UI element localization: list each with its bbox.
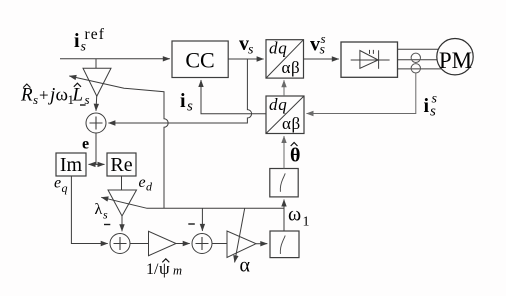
block CC current controller <box>172 41 228 78</box>
svg-text:i: i <box>74 30 80 52</box>
gain block (R_s + j w1 L_s) triangle <box>83 68 111 96</box>
svg-text:s: s <box>187 99 193 115</box>
summing node 1 <box>110 234 130 254</box>
svg-text:θ: θ <box>290 145 300 167</box>
svg-text:+: + <box>39 86 49 105</box>
svg-text:Im: Im <box>60 154 83 176</box>
minus sign above summing node 2 <box>188 223 195 225</box>
svg-text:R: R <box>20 85 33 106</box>
svg-text:e: e <box>82 136 89 153</box>
label i_s^ref <box>74 26 105 55</box>
summing node e (v_s - Z i_s) <box>86 113 106 133</box>
wire e_q from Im to summing node 1 <box>71 176 107 244</box>
svg-text:1/: 1/ <box>146 261 159 278</box>
svg-text:s: s <box>248 43 254 58</box>
block Re <box>107 153 136 176</box>
svg-text:d: d <box>146 180 153 194</box>
wire summing node 1 to 1/psi gain <box>130 243 148 245</box>
current sensor circles <box>411 53 420 62</box>
arrow omega1 down into summing node 2 <box>201 208 203 231</box>
wire theta between transform blocks <box>283 80 285 96</box>
arrow alpha to integrator 2 <box>256 243 267 245</box>
PM machine circle <box>437 39 473 75</box>
svg-text:ω: ω <box>56 85 69 106</box>
svg-text:ref: ref <box>85 26 106 43</box>
gain block lambda_s triangle <box>108 190 137 216</box>
wire e down to Im/Re tee <box>95 133 97 164</box>
wire transform block 1 to inverter <box>304 58 339 60</box>
wire lambda output to summing node 1 <box>121 216 123 231</box>
label v_s^s <box>310 31 326 58</box>
control arrow omega1 into gain triangle (with hop over e-wire) <box>69 76 168 208</box>
svg-text:dq: dq <box>269 95 288 114</box>
label lambda_s <box>95 201 109 222</box>
gain block 1/psi_m triangle <box>149 231 177 255</box>
label i_s <box>180 90 193 115</box>
svg-text:1: 1 <box>303 215 310 230</box>
arrow 1/psi_m to summing node 2 <box>176 243 190 245</box>
summing node 2 <box>192 234 212 254</box>
block Im <box>56 153 86 176</box>
svg-text:Re: Re <box>110 154 132 176</box>
wire v_s junction down into error summing node (hop over i_s wire) <box>108 59 251 123</box>
svg-text:CC: CC <box>185 48 214 73</box>
tee arrow into Re <box>96 163 105 165</box>
transform block 2 (alpha-beta to dq) <box>266 95 304 134</box>
gain block alpha triangle <box>227 231 256 257</box>
wire gain triangle to error summing node <box>95 96 98 111</box>
svg-text:ω: ω <box>288 204 301 226</box>
svg-text:q: q <box>62 181 68 195</box>
transform block 1 (dq to alpha-beta) <box>266 39 304 79</box>
three-phase wires to PM <box>398 49 442 69</box>
control arrow omega1 through alpha triangle <box>235 208 245 262</box>
wire junction drop to gain triangle <box>95 59 97 68</box>
svg-text:s: s <box>103 208 108 222</box>
label theta hat <box>290 143 300 167</box>
svg-text:i: i <box>180 90 186 112</box>
svg-text:αβ: αβ <box>282 58 301 77</box>
integrator block 1 (theta integrator) <box>270 169 298 197</box>
wire CC to transform block 1 <box>228 58 263 60</box>
tee arrow into Im <box>89 163 97 165</box>
block inverter <box>341 42 398 77</box>
wire i_s from transform block 2 to CC <box>201 80 266 114</box>
label v_s <box>239 33 254 58</box>
svg-text:PM: PM <box>439 48 472 73</box>
svg-text:αβ: αβ <box>282 114 301 133</box>
label e_q <box>54 175 68 196</box>
wire omega1 up to integrator 1 <box>283 200 285 232</box>
svg-text:i: i <box>424 95 430 117</box>
svg-text:s: s <box>33 92 38 107</box>
svg-text:e: e <box>54 175 61 192</box>
svg-text:L: L <box>72 85 84 106</box>
wire summing node 2 to alpha gain <box>212 243 227 245</box>
svg-text:α: α <box>240 255 251 277</box>
svg-text:s: s <box>432 92 438 107</box>
svg-text:λ: λ <box>95 201 103 218</box>
label R_s + j omega_1 L_s <box>20 83 90 107</box>
label 1/psi_m <box>146 259 182 278</box>
svg-text:s: s <box>321 31 326 46</box>
wire Re output down to lambda triangle <box>121 176 123 190</box>
svg-text:e: e <box>139 174 146 191</box>
omega1 feedback wire (horizontal) <box>147 207 285 209</box>
label i_s^s <box>424 92 438 120</box>
label e_d <box>139 174 154 194</box>
minus sign below lambda triangle <box>104 224 110 226</box>
wire measured current i_s^s to transform block 2 <box>307 73 416 114</box>
control arrow omega1 into lambda triangle <box>101 197 146 208</box>
svg-text:dq: dq <box>269 39 288 58</box>
integrator block 2 (omega1 filter) <box>270 231 299 258</box>
minus sign at gain triangle output <box>80 104 86 106</box>
label omega_1 <box>288 204 310 230</box>
svg-text:m: m <box>173 264 182 278</box>
wire i_s^ref to CC <box>60 58 170 60</box>
svg-text:v: v <box>310 34 320 56</box>
wire theta up into transform block 2 <box>283 136 285 169</box>
